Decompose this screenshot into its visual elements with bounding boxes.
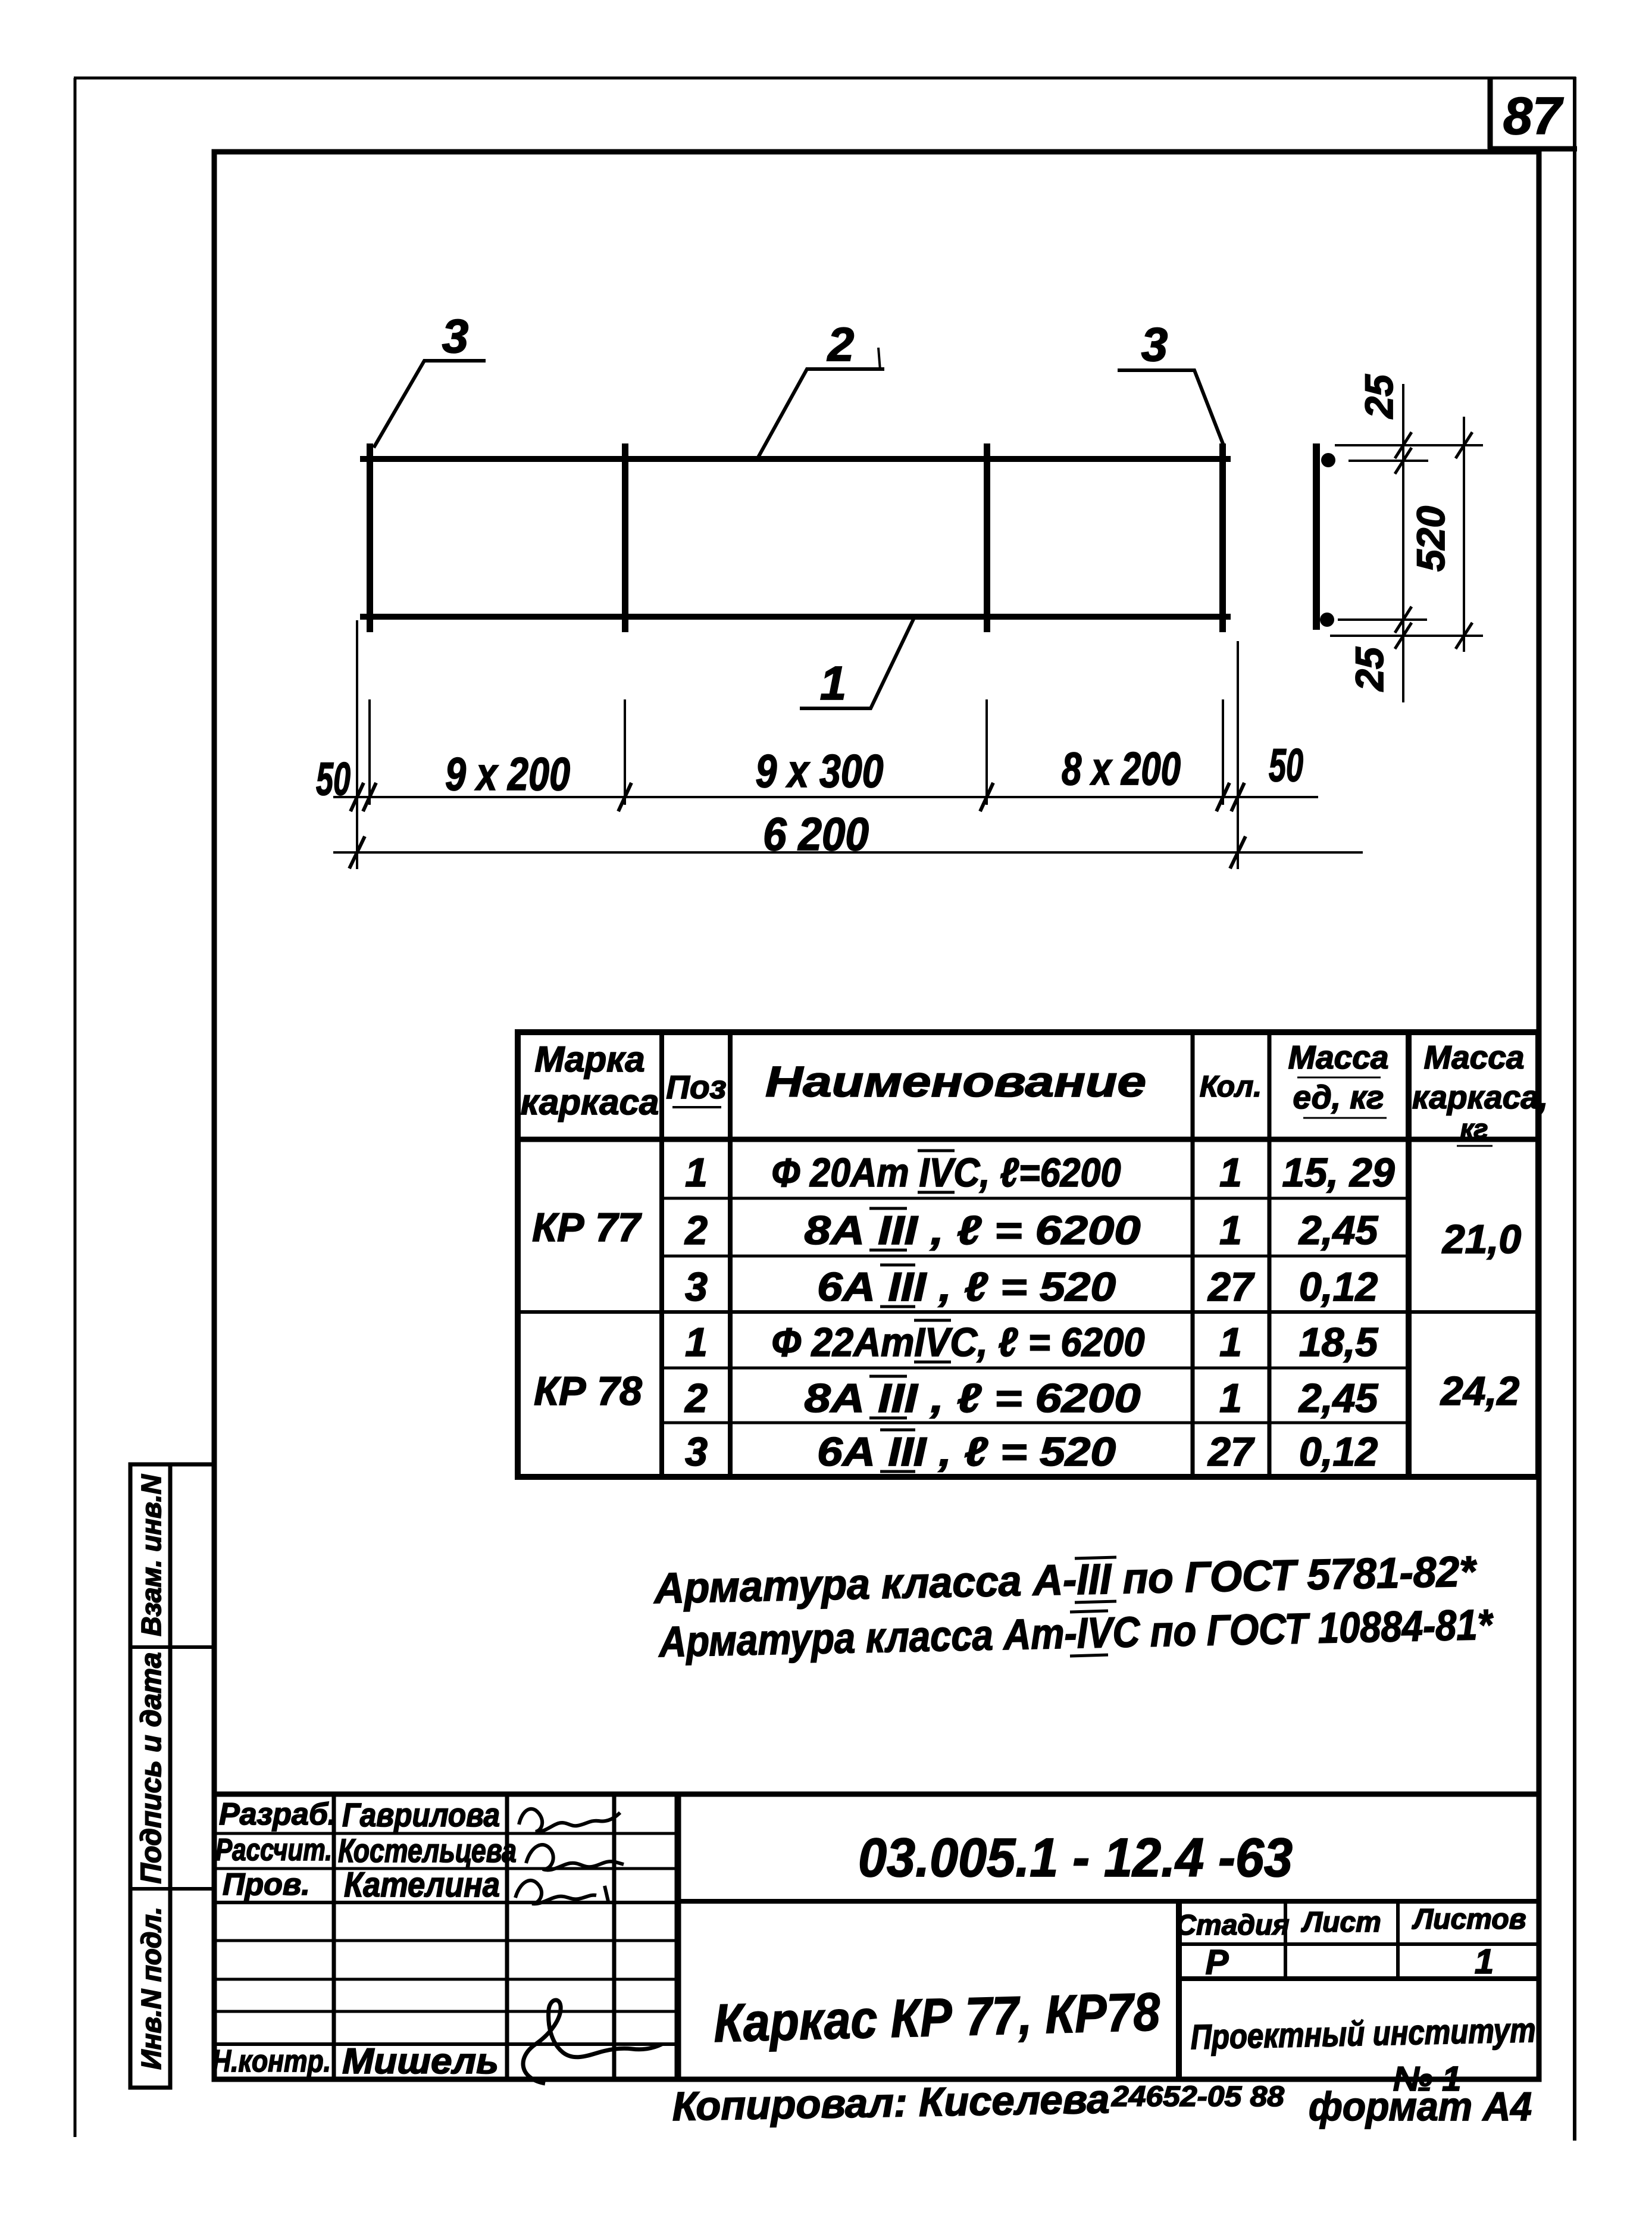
svg-text:1: 1 xyxy=(1219,1208,1242,1253)
svg-text:Ф 22АтIVС, ℓ = 6200: Ф 22АтIVС, ℓ = 6200 xyxy=(772,1320,1145,1365)
svg-text:1: 1 xyxy=(1475,1942,1494,1981)
svg-text:2,45: 2,45 xyxy=(1298,1208,1379,1253)
svg-text:6А III , ℓ = 520: 6А III , ℓ = 520 xyxy=(817,1264,1116,1310)
svg-text:15, 29: 15, 29 xyxy=(1282,1150,1394,1195)
svg-text:2,45: 2,45 xyxy=(1298,1376,1379,1421)
svg-text:3: 3 xyxy=(685,1429,708,1474)
svg-text:21,0: 21,0 xyxy=(1441,1217,1522,1262)
svg-text:8 x 200: 8 x 200 xyxy=(1062,742,1181,795)
svg-text:Инв.N подл.: Инв.N подл. xyxy=(136,1907,167,2069)
svg-text:3: 3 xyxy=(1141,318,1168,371)
svg-text:9 x 300: 9 x 300 xyxy=(756,745,884,797)
svg-text:Ф 20Ат IVС, ℓ=6200: Ф 20Ат IVС, ℓ=6200 xyxy=(772,1150,1121,1195)
svg-text:Мишель: Мишель xyxy=(342,2041,499,2081)
svg-text:Разраб.: Разраб. xyxy=(219,1797,336,1832)
svg-text:каркаса: каркаса xyxy=(521,1082,659,1122)
svg-text:Масса: Масса xyxy=(1288,1039,1389,1076)
svg-text:9 x 200: 9 x 200 xyxy=(445,748,570,800)
svg-text:Кол.: Кол. xyxy=(1200,1070,1262,1103)
svg-text:27: 27 xyxy=(1207,1264,1255,1310)
svg-text:Наименование: Наименование xyxy=(765,1058,1146,1106)
svg-text:25: 25 xyxy=(1357,374,1401,420)
svg-text:50: 50 xyxy=(1269,739,1303,791)
svg-text:8А III , ℓ = 6200: 8А III , ℓ = 6200 xyxy=(805,1376,1141,1421)
svg-text:18,5: 18,5 xyxy=(1299,1320,1379,1365)
svg-text:Подпись и дата: Подпись и дата xyxy=(136,1652,167,1883)
svg-text:Поз: Поз xyxy=(666,1069,726,1105)
svg-text:Р: Р xyxy=(1206,1943,1229,1982)
svg-text:2: 2 xyxy=(684,1208,708,1253)
svg-text:6 200: 6 200 xyxy=(763,808,869,860)
svg-text:2: 2 xyxy=(827,318,855,371)
svg-text:Марка: Марка xyxy=(534,1039,644,1079)
svg-text:1: 1 xyxy=(1219,1376,1242,1421)
svg-text:Пров.: Пров. xyxy=(223,1867,310,1902)
svg-text:Гаврилова: Гаврилова xyxy=(342,1796,500,1833)
svg-text:27: 27 xyxy=(1207,1429,1255,1474)
svg-text:1: 1 xyxy=(685,1150,708,1195)
svg-text:КР 78: КР 78 xyxy=(534,1369,642,1414)
svg-text:Масса: Масса xyxy=(1424,1039,1525,1076)
svg-text:КР 77: КР 77 xyxy=(532,1205,642,1250)
svg-text:1: 1 xyxy=(1219,1150,1242,1195)
svg-text:формат А4: формат А4 xyxy=(1309,2084,1532,2129)
svg-text:Костельцева: Костельцева xyxy=(338,1832,517,1869)
svg-text:87: 87 xyxy=(1503,86,1564,145)
svg-text:50: 50 xyxy=(316,752,351,805)
svg-text:ед, кг: ед, кг xyxy=(1293,1079,1384,1116)
svg-text:Взам. инв.N: Взам. инв.N xyxy=(136,1474,167,1636)
svg-text:кг: кг xyxy=(1460,1114,1488,1144)
svg-text:6А III , ℓ = 520: 6А III , ℓ = 520 xyxy=(817,1429,1116,1474)
svg-text:8А III , ℓ = 6200: 8А III , ℓ = 6200 xyxy=(805,1208,1141,1253)
svg-text:Лист: Лист xyxy=(1301,1907,1381,1938)
svg-text:Рассчит.: Рассчит. xyxy=(215,1833,332,1867)
svg-text:Стадия: Стадия xyxy=(1175,1910,1289,1941)
svg-text:Каркас КР 77, КР78: Каркас КР 77, КР78 xyxy=(713,1982,1160,2054)
svg-text:24,2: 24,2 xyxy=(1440,1369,1520,1414)
svg-text:Н.контр.: Н.контр. xyxy=(212,2044,331,2079)
svg-text:Листов: Листов xyxy=(1412,1904,1526,1935)
svg-text:Арматура класса А-III по ГОСТ: Арматура класса А-III по ГОСТ 5781-82* xyxy=(653,1548,1478,1613)
svg-text:25: 25 xyxy=(1347,646,1391,692)
svg-text:0,12: 0,12 xyxy=(1299,1429,1378,1474)
svg-text:2: 2 xyxy=(684,1376,708,1421)
svg-text:1: 1 xyxy=(685,1320,708,1365)
svg-text:520: 520 xyxy=(1409,506,1453,571)
svg-text:03.005.1 - 12.4 -63: 03.005.1 - 12.4 -63 xyxy=(858,1827,1293,1888)
svg-text:Проектный институт: Проектный институт xyxy=(1190,2011,1536,2057)
svg-text:каркаса,: каркаса, xyxy=(1412,1079,1548,1116)
svg-text:Кателина: Кателина xyxy=(344,1866,500,1904)
svg-text:1: 1 xyxy=(1219,1320,1242,1365)
svg-text:Копировал: Киселева: Копировал: Киселева xyxy=(672,2076,1110,2129)
svg-text:24652-05 88: 24652-05 88 xyxy=(1111,2081,1284,2113)
svg-text:0,12: 0,12 xyxy=(1299,1264,1378,1310)
svg-text:3: 3 xyxy=(442,310,469,363)
svg-text:3: 3 xyxy=(685,1264,708,1310)
svg-text:1: 1 xyxy=(820,657,847,710)
